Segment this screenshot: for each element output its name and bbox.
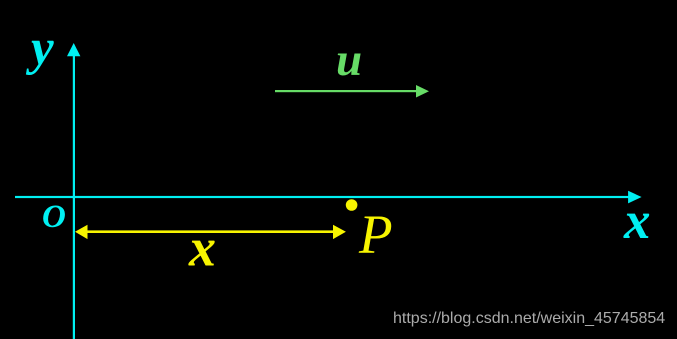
dimension arrow x (double-headed)	[75, 225, 346, 239]
svg-text:O: O	[42, 199, 66, 235]
point P dot	[346, 199, 358, 211]
x-axis	[15, 191, 642, 204]
svg-text:x: x	[188, 218, 216, 278]
svg-text:P: P	[358, 204, 393, 265]
svg-text:u: u	[336, 34, 362, 86]
y-axis	[67, 43, 80, 339]
svg-text:https://blog.csdn.net/weixin_4: https://blog.csdn.net/weixin_45745854	[393, 310, 665, 327]
svg-text:y: y	[25, 20, 54, 76]
velocity arrow u	[275, 85, 429, 98]
svg-text:x: x	[623, 192, 651, 250]
